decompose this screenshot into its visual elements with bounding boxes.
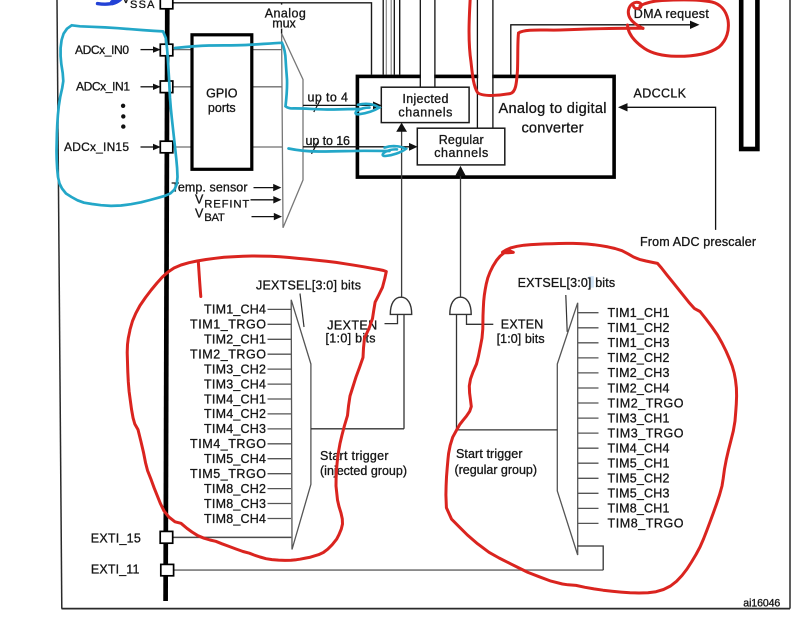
EXTI_11 label + pin + wire + step into regular mux — [91, 546, 603, 576]
svg-text:Start trigger: Start trigger — [456, 447, 523, 461]
analog mux trapezoid — [282, 34, 303, 228]
Regular channels box — [417, 128, 505, 165]
label Start trigger (injected group) — [320, 449, 407, 478]
injected trigger mux — [291, 300, 311, 550]
svg-text:TIM1_CH3: TIM1_CH3 — [608, 336, 670, 350]
svg-text:TIM3_TRGO: TIM3_TRGO — [608, 426, 684, 440]
svg-text:From ADC prescaler: From ADC prescaler — [640, 235, 756, 249]
svg-text:(regular group): (regular group) — [455, 463, 538, 477]
label EXTSEL[3:0] bits + pointer — [518, 276, 616, 332]
svg-text:ADCx_IN0: ADCx_IN0 — [75, 43, 129, 57]
wire ADCx_IN15 row — [173, 146, 282, 148]
top thin line cluster into ADC — [383, 0, 400, 75]
DMA request wire + arrow + label — [511, 7, 710, 75]
svg-text:converter: converter — [522, 120, 584, 136]
label Analog mux — [259, 5, 308, 31]
svg-text:TIM2_CH3: TIM2_CH3 — [608, 366, 670, 380]
bus pair into Regular channels — [477, 0, 493, 128]
cyan arrow head 1 — [356, 104, 380, 114]
cyan annotation: loop around ADC inputs — [57, 25, 178, 206]
svg-text:TIM4_CH2: TIM4_CH2 — [204, 407, 266, 421]
label ADCx_IN15 + arrow — [64, 140, 161, 154]
svg-text:TIM2_TRGO: TIM2_TRGO — [608, 396, 684, 410]
frame left border — [57, 0, 62, 609]
svg-text:[1:0] bits: [1:0] bits — [497, 332, 545, 346]
regular start trigger horizontal wire — [457, 429, 558, 431]
svg-text:V: V — [195, 193, 204, 207]
svg-text:TIM4_TRGO: TIM4_TRGO — [190, 437, 266, 451]
svg-text:EXTSEL[3:0] bits: EXTSEL[3:0] bits — [518, 276, 616, 290]
svg-text:Analog to digital: Analog to digital — [499, 101, 607, 117]
cyan annotation: up to 16 trace — [289, 149, 390, 152]
svg-text:Injected: Injected — [402, 92, 448, 106]
svg-text:EXTI_11: EXTI_11 — [91, 562, 140, 576]
thick bus line — [166, 0, 168, 601]
label ADCx_IN0 + arrow — [75, 43, 161, 57]
svg-text:TIM1_CH1: TIM1_CH1 — [608, 306, 670, 320]
regular trigger mux — [557, 303, 577, 555]
svg-text:TIM4_CH1: TIM4_CH1 — [204, 392, 266, 406]
wire up to 4 + arrow + slash + label — [303, 91, 382, 112]
injected trigger rows — [268, 309, 292, 518]
cyan annotation: IN0 to injected channels trace — [175, 43, 360, 110]
svg-text:GPIO: GPIO — [206, 87, 238, 101]
svg-text:(injected group): (injected group) — [320, 464, 407, 478]
Injected channels box — [381, 87, 469, 122]
svg-text:BAT: BAT — [204, 212, 225, 224]
svg-text:up to 4: up to 4 — [308, 91, 349, 105]
svg-text:TIM1_CH4: TIM1_CH4 — [204, 303, 266, 317]
wire up to 16 + arrow + slash + label — [303, 134, 418, 154]
svg-text:ports: ports — [208, 101, 236, 115]
svg-text:TIM5_CH1: TIM5_CH1 — [608, 457, 670, 471]
svg-text:REFINT: REFINT — [204, 198, 249, 210]
svg-text:Regular: Regular — [439, 133, 484, 147]
red tick mark on injected circle — [198, 262, 201, 297]
svg-text:TIM4_CH3: TIM4_CH3 — [204, 422, 266, 436]
start trigger regular: vertical wire + up arrow — [455, 166, 466, 298]
svg-text:SSA: SSA — [130, 0, 155, 11]
ADCCLK wire + arrow + label — [618, 87, 716, 230]
label Analog to digital converter — [499, 101, 607, 137]
svg-text:ADCx_IN1: ADCx_IN1 — [76, 80, 130, 94]
svg-text:channels: channels — [398, 105, 452, 119]
svg-text:TIM2_CH1: TIM2_CH1 — [204, 333, 266, 347]
wire junction to analog mux apex — [281, 3, 283, 34]
svg-text:ADCx_IN15: ADCx_IN15 — [64, 140, 129, 154]
svg-text:ai16046: ai16046 — [743, 597, 780, 609]
regular trigger rows — [578, 313, 599, 524]
red annotation: circle around injected trigger section — [127, 256, 386, 560]
or gate injected — [385, 297, 412, 429]
frame bottom border — [62, 608, 791, 610]
svg-text:JEXTSEL[3:0] bits: JEXTSEL[3:0] bits — [256, 278, 361, 292]
pin square VSSA — [160, 0, 173, 9]
red annotation: circle around regular trigger section — [446, 243, 737, 593]
pin square ADCx_IN15 — [160, 141, 173, 153]
svg-text:TIM8_CH2: TIM8_CH2 — [204, 482, 266, 496]
svg-text:EXTI_15: EXTI_15 — [91, 531, 141, 545]
svg-text:mux: mux — [272, 16, 296, 30]
blue pen mark top left — [98, 0, 122, 4]
svg-text:EXTEN: EXTEN — [501, 318, 544, 332]
label JEXTSEL[3:0] bits + pointer — [256, 278, 361, 327]
red annotation: circle around DMA request — [628, 0, 729, 56]
svg-text:TIM1_TRGO: TIM1_TRGO — [190, 318, 266, 332]
svg-text:TIM8_CH4: TIM8_CH4 — [204, 512, 266, 526]
svg-text:TIM5_TRGO: TIM5_TRGO — [190, 467, 266, 481]
svg-text:TIM5_CH2: TIM5_CH2 — [608, 472, 670, 486]
start trigger injected: vertical wire + up arrow — [396, 123, 407, 298]
svg-text:V: V — [195, 206, 204, 220]
wire VSSA to ADC top — [173, 3, 372, 75]
label VSSA — [122, 0, 155, 11]
bus rectangle right — [741, 0, 757, 149]
svg-text:TIM2_TRGO: TIM2_TRGO — [190, 348, 266, 362]
wire ADCx_IN1 row — [173, 86, 282, 88]
EXTI_15 label + pin + wire — [91, 531, 291, 545]
svg-text:TIM4_CH4: TIM4_CH4 — [608, 442, 670, 456]
label VBAT + arrow — [195, 206, 282, 224]
label Start trigger (regular group) — [455, 447, 538, 477]
svg-text:TIM3_CH4: TIM3_CH4 — [204, 377, 266, 391]
svg-text:ADCCLK: ADCCLK — [634, 87, 687, 101]
svg-text:DMA request: DMA request — [634, 7, 710, 21]
svg-text:TIM2_CH4: TIM2_CH4 — [608, 381, 670, 395]
svg-text:up to 16: up to 16 — [306, 134, 351, 148]
svg-text:channels: channels — [434, 146, 488, 160]
cyan arrow head 2 — [383, 146, 406, 156]
svg-text:TIM2_CH2: TIM2_CH2 — [608, 351, 670, 365]
svg-text:TIM8_CH1: TIM8_CH1 — [608, 502, 670, 516]
label VREFINT + arrow — [195, 193, 282, 211]
label JEXTEN [1:0] bits — [326, 318, 378, 345]
svg-text:TIM8_TRGO: TIM8_TRGO — [608, 517, 684, 531]
svg-text:TIM1_CH2: TIM1_CH2 — [608, 321, 670, 335]
pin square ADCx_IN0 — [160, 44, 173, 56]
or gate regular — [450, 297, 494, 430]
label Temp. sensor + arrow — [172, 181, 282, 195]
svg-text:TIM5_CH4: TIM5_CH4 — [204, 452, 266, 466]
svg-text:TIM3_CH1: TIM3_CH1 — [608, 411, 670, 425]
GPIO ports box — [192, 35, 252, 170]
label EXTEN [1:0] bits — [497, 318, 545, 346]
red annotation: tail into ADC box — [469, 0, 643, 95]
svg-text:TIM5_CH3: TIM5_CH3 — [608, 487, 670, 501]
ellipsis dots — [121, 104, 126, 129]
svg-text:Start trigger: Start trigger — [320, 449, 389, 463]
pin square ADCx_IN1 — [160, 81, 173, 93]
label ADCx_IN1 + arrow — [76, 80, 161, 94]
ADC converter box — [357, 76, 614, 177]
svg-text:Temp. sensor: Temp. sensor — [172, 181, 248, 195]
wire ADCx_IN0 row — [173, 49, 282, 51]
bus pair into Injected channels — [420, 0, 435, 87]
injected start trigger horizontal wire — [311, 428, 404, 430]
frame right border — [789, 0, 791, 609]
svg-text:TIM8_CH3: TIM8_CH3 — [204, 497, 266, 511]
svg-text:TIM3_CH2: TIM3_CH2 — [204, 362, 266, 376]
